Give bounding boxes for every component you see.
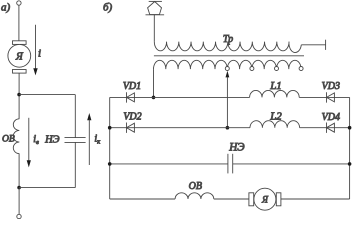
- inductor L1: [250, 80, 300, 97]
- svg-text:НЭ: НЭ: [44, 134, 60, 145]
- svg-text:iв: iв: [33, 134, 39, 146]
- diode VD1: [123, 81, 141, 103]
- wire bottom horizontal of NE loop: [19, 187, 75, 189]
- wire node B to bottom terminal: [18, 188, 20, 215]
- svg-text:VD2: VD2: [123, 111, 141, 122]
- left bus wire: [109, 97, 111, 199]
- svg-text:L2: L2: [269, 110, 282, 122]
- svg-text:Тр: Тр: [223, 34, 233, 45]
- wire pantograph to primary: [153, 15, 155, 42]
- terminal top (a): [17, 1, 21, 5]
- node A: [17, 93, 21, 97]
- secondary tap circles: [225, 67, 229, 71]
- wire secondary left end to line 1: [153, 69, 155, 97]
- wire line 3: [110, 163, 228, 165]
- pantograph: [146, 1, 165, 14]
- capacitor NE (a): [44, 134, 86, 145]
- field winding OV (b): [175, 181, 214, 199]
- node B: [17, 186, 21, 190]
- svg-text:б): б): [103, 1, 113, 13]
- svg-text:VD4: VD4: [322, 112, 340, 123]
- node: secondary end on line 1: [152, 96, 156, 100]
- diode VD3: [322, 81, 340, 102]
- current arrow i: [33, 25, 41, 76]
- wire top horizontal of NE loop: [19, 94, 75, 96]
- svg-text:Я: Я: [261, 195, 269, 205]
- svg-text:VD1: VD1: [123, 81, 141, 92]
- svg-text:L1: L1: [269, 80, 282, 92]
- node: right bus on line 3: [348, 162, 352, 166]
- wire motor to node A: [18, 73, 20, 119]
- wire line 2: [110, 127, 250, 129]
- tap selector arrow and wire to line 2: [226, 71, 230, 128]
- svg-text:а): а): [1, 1, 11, 13]
- svg-text:ОВ: ОВ: [2, 134, 15, 145]
- motor armature Ya (b): [249, 188, 281, 210]
- svg-text:i: i: [38, 47, 41, 59]
- svg-text:VD3: VD3: [322, 81, 340, 92]
- arrow i_k (a): [87, 113, 101, 165]
- wire terminal to motor: [18, 5, 20, 41]
- transformer Tr secondary: [154, 60, 302, 69]
- node: left bus on line 2: [108, 126, 112, 130]
- node: left bus on line 3: [108, 162, 112, 166]
- node: tap wire on line 2: [226, 126, 230, 130]
- wire NE branch bottom: [74, 142, 76, 187]
- wire coil to node B: [18, 154, 20, 188]
- transformer Tr primary: [154, 34, 325, 53]
- transformer core: [154, 55, 304, 57]
- wire NE branch top: [74, 95, 76, 138]
- diode VD2: [123, 111, 141, 132]
- svg-text:iк: iк: [94, 134, 101, 146]
- svg-text:Я: Я: [15, 52, 24, 63]
- motor armature Ya (a): [8, 41, 31, 73]
- capacitor NE (b): [228, 141, 245, 173]
- node: right bus on line 2: [348, 126, 352, 130]
- svg-text:ОВ: ОВ: [189, 181, 202, 192]
- field winding OV (a): [2, 119, 19, 154]
- svg-text:НЭ: НЭ: [228, 141, 245, 153]
- wire line 4: [110, 198, 175, 200]
- wire line 1: [110, 96, 250, 98]
- terminal bottom (a): [17, 214, 21, 218]
- diode VD4: [322, 112, 340, 133]
- arrow i_v: [27, 118, 39, 168]
- inductor L2: [250, 110, 300, 127]
- right bus wire: [349, 97, 351, 199]
